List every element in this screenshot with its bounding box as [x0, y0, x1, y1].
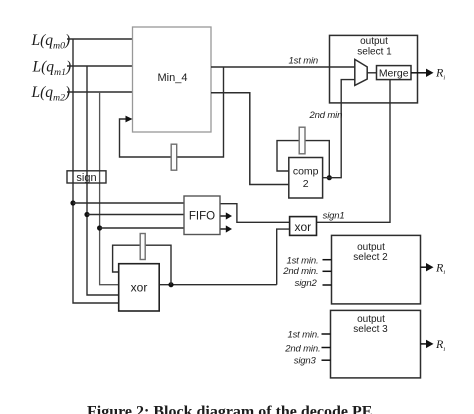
stub 1st min select3	[322, 333, 331, 335]
stub 2nd min select3	[322, 347, 331, 349]
wire select3 to R3	[421, 343, 428, 345]
wire select2 to R2	[421, 266, 428, 268]
svg-text:sign: sign	[76, 172, 96, 184]
svg-text:L(qm0): L(qm0)	[31, 32, 71, 51]
wire xor feedback loop	[113, 245, 171, 285]
stub 1st min select2	[323, 259, 332, 261]
arrowhead into Min_4	[126, 116, 133, 123]
junction dot xor output	[168, 282, 173, 287]
junction dot comp output	[327, 175, 332, 180]
block output select 1	[330, 35, 418, 103]
junction dot q_m0 / FIFO	[70, 200, 75, 205]
svg-text:Min_4: Min_4	[158, 72, 188, 84]
FIFO output arrow 2	[221, 225, 233, 232]
wire branch q_m0 down to xor	[73, 39, 120, 303]
svg-text:2nd min.: 2nd min.	[284, 343, 320, 354]
wire xor parity output	[159, 284, 277, 286]
stub sign3 select3	[322, 359, 331, 361]
register on comp loop	[299, 127, 305, 154]
svg-text:1st min: 1st min	[289, 56, 319, 67]
junction dot q_m2 / FIFO	[97, 225, 102, 230]
register on xor loop	[140, 234, 145, 260]
wire 1st min (Min_4 out 1 to mux)	[211, 66, 355, 68]
svg-text:L(qm1): L(qm1)	[32, 59, 72, 78]
block Min_4	[133, 27, 212, 132]
svg-text:sign3: sign3	[294, 356, 317, 367]
svg-text:xor: xor	[294, 220, 311, 234]
block FIFO	[184, 196, 220, 235]
arrowhead R2	[426, 263, 434, 271]
wire input q_m2	[67, 91, 133, 93]
svg-text:sign2: sign2	[295, 278, 318, 289]
wire 2nd min (comp to mux)	[323, 80, 355, 178]
svg-text:comp: comp	[293, 166, 319, 178]
wire mux to Merge	[367, 72, 376, 74]
FIFO output arrow 1	[221, 212, 233, 219]
block xor (sign compare)	[290, 217, 317, 236]
svg-text:2nd min.: 2nd min.	[282, 266, 318, 277]
stub sign2 select2	[323, 284, 332, 286]
block xor (parity)	[119, 264, 160, 311]
svg-text:2nd min: 2nd min	[309, 110, 343, 121]
stub 2nd min select2	[323, 270, 332, 272]
wire xor output up to sign xor	[277, 229, 290, 285]
svg-text:select 2: select 2	[353, 252, 388, 263]
register on Min_4 feedback	[171, 144, 177, 170]
block comp 2	[289, 158, 323, 199]
wire Merge to R1	[411, 72, 427, 74]
svg-text:select 1: select 1	[357, 47, 392, 58]
wire branch q_m1 down to xor	[87, 66, 120, 295]
block Merge	[377, 66, 412, 80]
sign box	[67, 171, 106, 184]
svg-text:select 3: select 3	[353, 324, 388, 335]
wire FIFO input 3	[100, 227, 184, 229]
junction dot q_m1 / FIFO	[84, 212, 89, 217]
block output select 2	[332, 235, 421, 304]
svg-text:Figure 2: Block diagram of the: Figure 2: Block diagram of the decode PE	[87, 404, 372, 414]
wire comp feedback loop	[277, 141, 329, 178]
wire sign1 (xor to Merge)	[317, 80, 391, 223]
wire FIFO to xor	[220, 204, 290, 223]
wire FIFO input 2	[87, 214, 184, 216]
wire Min_4 feedback loop	[120, 67, 224, 157]
svg-text:xor: xor	[131, 281, 148, 295]
block output select 3	[331, 310, 421, 378]
wire branch q_m2 down to xor	[100, 92, 120, 285]
svg-text:1st min.: 1st min.	[287, 329, 319, 340]
svg-text:2: 2	[303, 178, 309, 190]
arrowhead R1	[426, 69, 434, 77]
svg-text:L(qm2): L(qm2)	[31, 84, 71, 103]
wire Min_4 out 2 to comp	[211, 93, 289, 185]
mux trapezoid	[355, 59, 367, 85]
wire input q_m1	[67, 65, 133, 67]
wire input q_m0	[67, 38, 133, 40]
svg-text:Merge: Merge	[379, 68, 409, 80]
svg-text:output: output	[360, 36, 388, 47]
svg-text:sign1: sign1	[323, 211, 345, 222]
wire FIFO input 1	[73, 202, 184, 204]
svg-text:FIFO: FIFO	[189, 211, 215, 223]
arrowhead R3	[426, 340, 434, 348]
